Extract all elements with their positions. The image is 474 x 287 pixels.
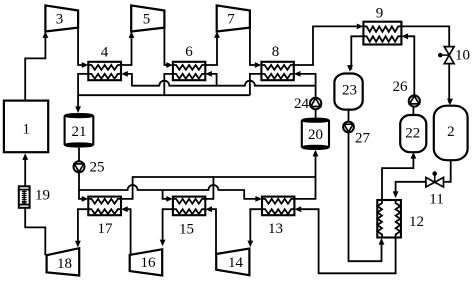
arrow into HX13 row2	[295, 206, 302, 212]
wire valve11 to HX12 right column	[396, 182, 426, 196]
arrow into HX13 row1	[255, 196, 262, 202]
svg-text:13: 13	[268, 221, 283, 237]
wire component19 to vessel 1	[24, 156, 26, 187]
turbine 14	[216, 249, 249, 276]
wire vessel21 to pump25	[78, 148, 80, 162]
wire HX4 to turbine5	[121, 34, 132, 66]
svg-text:21: 21	[72, 124, 87, 140]
vessel 22	[400, 115, 426, 152]
wire valve10 to vessel 2	[448, 64, 450, 103]
svg-text:16: 16	[141, 255, 157, 271]
arrow into HX6 row2	[205, 71, 212, 77]
wire line B	[78, 94, 250, 96]
wire vessel2 to valve 11	[445, 160, 451, 182]
pump 27	[343, 122, 354, 133]
arrow into vessel 2	[447, 99, 453, 106]
wire pump26 to HX9 row2	[405, 36, 414, 95]
svg-text:4: 4	[101, 45, 109, 61]
vessel 21	[65, 114, 94, 147]
svg-text:19: 19	[35, 188, 50, 204]
arrow into vessel 20	[313, 150, 319, 157]
turbine 18	[47, 248, 80, 275]
arrow into vessel 23	[347, 65, 353, 72]
turbine 5	[131, 5, 164, 31]
vessel 1	[4, 101, 48, 153]
wire line A with hops	[125, 74, 316, 86]
wire vessel20 to pump24	[315, 109, 317, 120]
wire vessel22 to pump26	[412, 107, 414, 116]
arrow into HX4 row1	[82, 62, 89, 68]
wire HX9 to vessel 23	[351, 36, 363, 69]
arrow into HX8 row2	[294, 71, 301, 77]
arrow into turbine 16	[160, 240, 166, 247]
heat exchanger 13	[262, 197, 294, 216]
pump 26	[409, 95, 420, 106]
wire lineP branch to HX15 row1	[163, 190, 170, 199]
svg-text:12: 12	[409, 214, 424, 230]
wire pump27 to HX12	[349, 132, 382, 261]
arrow into HX15 row1	[166, 196, 173, 202]
arrow into turbine 7	[214, 31, 220, 38]
wire line P with hops	[79, 185, 258, 199]
svg-text:1: 1	[23, 122, 31, 138]
wire vessel23 to pump27	[348, 110, 350, 122]
arrow into HX6 row1	[166, 62, 173, 68]
arrow into vessel 1	[22, 153, 28, 160]
svg-text:10: 10	[455, 48, 470, 64]
wire HX12 out to HX13 row2	[298, 209, 395, 273]
svg-text:2: 2	[447, 124, 455, 140]
wire HX6 drain	[164, 74, 173, 95]
pump 24	[310, 98, 321, 109]
svg-text:11: 11	[429, 192, 443, 208]
svg-text:17: 17	[98, 221, 114, 237]
svg-text:24: 24	[294, 96, 310, 112]
wire HX17 to turbine 18	[78, 209, 88, 245]
svg-text:25: 25	[90, 160, 105, 176]
heat exchanger 4	[88, 62, 121, 80]
svg-text:8: 8	[272, 44, 280, 60]
vessel 2	[434, 106, 468, 161]
arrow into turbine 14	[247, 241, 253, 248]
svg-text:5: 5	[143, 12, 151, 28]
wire HX17 out and line 1	[121, 177, 316, 199]
wire pump25 to HX17 row1	[79, 172, 85, 199]
arrow into HX9 row1	[357, 24, 364, 30]
wire HX8 drain	[250, 74, 262, 95]
wire HX9 to valve 10	[401, 26, 449, 47]
svg-text:3: 3	[56, 12, 64, 28]
wire HX4 drain to vessel 21	[78, 74, 88, 111]
svg-text:26: 26	[393, 79, 409, 95]
wire HX13 out to vessel 20	[294, 152, 315, 199]
svg-text:20: 20	[308, 127, 323, 143]
heat exchanger 15	[173, 197, 205, 216]
arrow into turbine 5	[129, 31, 135, 38]
wire lineA branch to HX6 row2	[209, 74, 217, 86]
vessel 20	[302, 118, 329, 149]
arrow into HX12 left column	[379, 238, 385, 245]
wire HX8 to HX9	[294, 26, 360, 65]
arrow into turbine 18	[75, 241, 81, 248]
svg-text:14: 14	[228, 255, 244, 271]
arrow into HX9 row2	[401, 33, 408, 39]
heat exchanger 12	[377, 200, 401, 238]
turbine 7	[217, 5, 250, 31]
arrow into HX12 right column	[393, 191, 399, 198]
svg-text:18: 18	[57, 256, 72, 272]
svg-text:15: 15	[179, 222, 194, 238]
wire vessel1 to turbine3	[25, 34, 45, 101]
wire turbine7 out to HX8	[250, 28, 258, 65]
heat exchanger 6	[173, 62, 205, 80]
arrow into turbine 3	[43, 31, 49, 38]
svg-text:6: 6	[185, 44, 193, 60]
arrow into HX17 row2	[121, 206, 128, 212]
pump 25	[74, 161, 85, 172]
component 19	[19, 186, 30, 208]
heat exchanger 9	[363, 22, 401, 45]
arrow into HX17 row1	[82, 196, 89, 202]
valve 11	[426, 171, 444, 187]
svg-text:23: 23	[342, 83, 357, 99]
arrow into HX15 row2	[205, 206, 212, 212]
svg-text:27: 27	[355, 131, 371, 147]
wire pump24 to HX8 row2	[298, 74, 316, 98]
wire HX6 to turbine7	[205, 34, 217, 66]
turbine 3	[45, 5, 78, 31]
wire turbine16 to HX17 row2	[125, 209, 131, 255]
turbine 16	[130, 249, 163, 275]
wire HX15 to turbine 16	[163, 209, 173, 244]
arrow into vessel 21	[75, 106, 81, 113]
vessel 23	[334, 74, 362, 110]
wire HX13 to turbine 14	[250, 209, 262, 245]
wire turbine18 to component 19	[25, 208, 45, 255]
wire turbine5 out to HX6	[164, 28, 169, 65]
svg-text:7: 7	[227, 12, 235, 28]
arrow into HX8 row1	[255, 62, 262, 68]
heat exchanger 8	[261, 62, 293, 80]
valve 10	[438, 47, 454, 64]
svg-text:9: 9	[376, 6, 384, 22]
heat exchanger 17	[88, 197, 121, 216]
arrow into HX4 row2	[121, 71, 128, 77]
wire HX15 out riser	[205, 177, 213, 199]
svg-text:22: 22	[405, 125, 420, 141]
wire turbine3 out to HX4	[78, 28, 84, 65]
wire turbine14 to HX15 row2	[209, 209, 216, 254]
wire HX12 to vessel 22	[382, 154, 413, 200]
arrow into vessel 22	[411, 152, 417, 159]
